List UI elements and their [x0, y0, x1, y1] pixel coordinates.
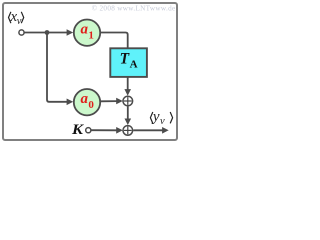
adder 1 (plus circle) [123, 96, 133, 106]
wire junction down to a0 with arrowhead [47, 33, 68, 102]
svg-text:y: y [151, 109, 160, 125]
node x_nu input label [9, 9, 24, 27]
svg-text:a: a [81, 91, 89, 107]
wire a0 to adder 1 with arrowhead [101, 100, 118, 102]
junction dot [45, 30, 50, 35]
wire adder 1 down to adder 2 with arrowhead [127, 106, 129, 119]
node y_nu output label [150, 109, 172, 127]
svg-text:0: 0 [88, 99, 94, 111]
svg-text:A: A [130, 59, 138, 71]
svg-text:© 2008 www.LNTwww.de: © 2008 www.LNTwww.de [92, 5, 176, 13]
multiplier a1 [74, 20, 100, 46]
adder 2 (plus circle) [123, 126, 133, 136]
svg-text:1: 1 [88, 29, 94, 41]
svg-text:ν: ν [160, 116, 165, 127]
svg-text:K: K [71, 122, 84, 138]
input node terminal K [86, 128, 91, 133]
wire K to adder 2 with arrowhead [91, 129, 117, 131]
delay block TA [110, 48, 147, 77]
wire a1 to TA [101, 33, 128, 49]
input node terminal x_nu [19, 30, 24, 35]
svg-text:ν: ν [17, 16, 22, 27]
svg-text:a: a [81, 21, 89, 37]
multiplier a0 [74, 89, 100, 115]
svg-text:T: T [120, 50, 130, 67]
wire x_nu to a1 with arrowhead [24, 32, 67, 34]
output wire to y_nu with arrowhead [133, 129, 162, 131]
wire TA down to adder 1 with arrowhead [127, 77, 129, 90]
